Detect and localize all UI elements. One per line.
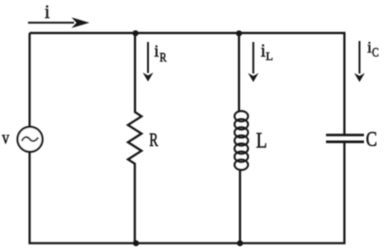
svg-text:C: C xyxy=(372,45,379,59)
svg-text:i: i xyxy=(45,3,50,23)
svg-text:C: C xyxy=(366,129,377,152)
svg-text:L: L xyxy=(266,49,273,63)
svg-text:v: v xyxy=(2,127,10,148)
svg-text:R: R xyxy=(149,129,158,151)
svg-text:L: L xyxy=(256,129,267,153)
svg-text:i: i xyxy=(154,42,159,61)
svg-text:R: R xyxy=(160,52,167,65)
